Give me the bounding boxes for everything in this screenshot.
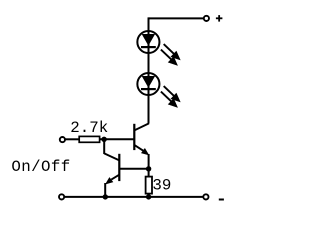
junction: Q1 base / Q2 collector node: [101, 137, 106, 142]
wire: Q2 collector up to base node: [103, 139, 105, 154]
wire: Q1 emitter down to sense node: [148, 154, 150, 169]
wire: resistor 39 down to ground rail: [148, 193, 150, 197]
terminal ground-left (open circle): [59, 194, 64, 199]
wire: main vertical through both LEDs down to Q1 collector bend: [148, 17, 150, 123]
LED D1 light-emission arrows: [161, 44, 179, 64]
input terminal On/Off (open circle): [60, 137, 65, 142]
label -: [219, 199, 224, 201]
LED D1: [137, 31, 159, 53]
label +: [216, 15, 223, 22]
svg-text:39: 39: [152, 176, 171, 194]
terminal + (open circle): [204, 16, 209, 21]
wire: sense node down to resistor 39: [148, 169, 150, 177]
LED D2: [137, 73, 159, 95]
wire: ground rail: [64, 196, 203, 198]
terminal - (open circle): [203, 194, 208, 199]
svg-text:2.7k: 2.7k: [70, 119, 108, 137]
transistor Q2: [104, 153, 119, 184]
wire: resistor 2.7k to Q1 base: [100, 138, 135, 140]
svg-text:On/Off: On/Off: [11, 158, 70, 176]
resistor R 39: [146, 177, 152, 194]
wire: Q2 base to sense node: [119, 168, 148, 170]
transistor Q1: [134, 123, 149, 155]
wire: top rail from LED string to + terminal: [149, 17, 204, 19]
junction: Q2 emitter on ground rail: [103, 194, 108, 199]
junction: sense node (Q1 emitter / Q2 base / R 39): [146, 166, 151, 171]
junction: resistor 39 on ground rail: [146, 194, 151, 199]
resistor 2.7k: [79, 136, 99, 142]
wire: Q2 emitter down to ground rail: [104, 183, 106, 197]
LED D2 light-emission arrows: [161, 86, 179, 106]
wire: input terminal to resistor 2.7k: [65, 138, 79, 140]
